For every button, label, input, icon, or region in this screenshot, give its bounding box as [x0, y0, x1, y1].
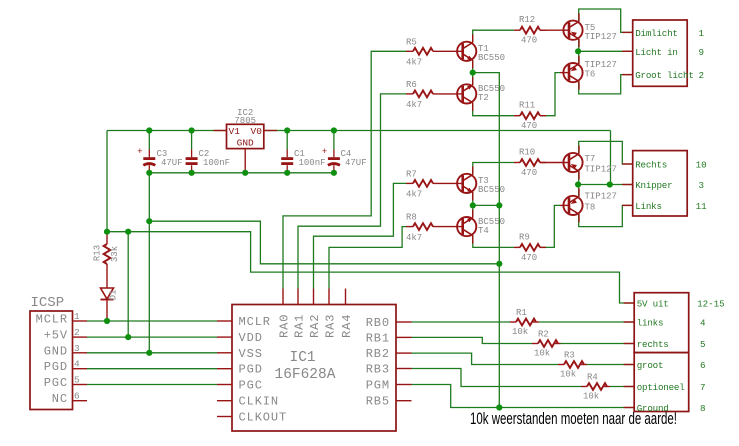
svg-text:+5V: +5V — [44, 329, 68, 343]
svg-text:PGD: PGD — [239, 363, 263, 377]
svg-text:6: 6 — [74, 391, 80, 402]
svg-text:VSS: VSS — [239, 347, 263, 361]
svg-text:RA4: RA4 — [340, 314, 354, 338]
junction node 12 — [146, 218, 152, 224]
svg-text:1: 1 — [699, 28, 705, 39]
wire T4 emitter to node B — [472, 205, 474, 217]
svg-text:RB5: RB5 — [366, 395, 390, 409]
junction node 7 — [242, 170, 248, 176]
junction node 3 — [284, 127, 290, 133]
svg-text:R10: R10 — [519, 148, 535, 158]
transistor T2 BC550 — [457, 84, 476, 103]
svg-text:R1: R1 — [516, 308, 527, 318]
svg-text:7: 7 — [700, 382, 706, 393]
svg-text:RA1: RA1 — [293, 314, 307, 338]
IC1 right pin PGM — [396, 384, 412, 386]
svg-text:+: + — [322, 147, 327, 157]
svg-text:D1: D1 — [109, 290, 119, 301]
junction node 9 — [331, 170, 337, 176]
svg-text:BC550: BC550 — [478, 53, 505, 63]
junction node 11 — [125, 229, 131, 235]
wire GND column to ICSP GND row — [148, 173, 150, 353]
wire R12 to T5 base — [540, 29, 569, 31]
svg-text:33k: 33k — [110, 246, 120, 262]
svg-text:TIP127: TIP127 — [585, 192, 617, 202]
wire T5 collector to Dimlicht — [579, 9, 633, 32]
ICSP pin 1 MCLR — [73, 320, 88, 322]
connector pin links 4 — [624, 321, 635, 323]
wire T6 emitter to Licht in node — [578, 51, 580, 64]
wire RA3 to R8 — [329, 227, 406, 289]
svg-text:10k: 10k — [534, 348, 550, 358]
wire T1 emitter to node A — [472, 60, 474, 72]
wire T3 collector to R10 row — [473, 163, 514, 175]
wire R11 T6 base stub — [560, 72, 569, 74]
IC1 right pin RB5 — [396, 400, 412, 402]
wire +5V branch down to ICSP +5V row — [127, 232, 129, 337]
svg-text:4k7: 4k7 — [406, 58, 422, 68]
junction node 4 — [331, 127, 337, 133]
connector indicators (Rechts/Knipper/Links) — [633, 151, 688, 216]
svg-text:CLKOUT: CLKOUT — [239, 411, 288, 425]
svg-text:IC1: IC1 — [290, 350, 316, 366]
svg-text:470: 470 — [521, 36, 537, 46]
junction node 8 — [284, 170, 290, 176]
IC1 left pin PGD — [217, 368, 232, 370]
connector outputs 2 (groot/optioneel/Ground) — [634, 353, 689, 412]
wire PGD row ICSP to IC1 — [87, 368, 217, 370]
connector pin Ground 8 — [624, 407, 635, 409]
wire left column from rail down to R13 node — [106, 131, 108, 232]
junction node 16 — [470, 70, 476, 76]
IC1 left pin MCLR — [217, 320, 232, 322]
transistor T3 BC550 — [457, 174, 476, 193]
wire T4 collector to R9 row — [473, 235, 514, 248]
resistor R6 4k7 — [406, 93, 413, 95]
wire ground column — [498, 205, 500, 407]
junction node 5 — [146, 170, 152, 176]
svg-text:T2: T2 — [478, 93, 489, 103]
svg-text:V0: V0 — [251, 126, 263, 137]
svg-text:4k7: 4k7 — [406, 233, 422, 243]
resistor R7 4k7 — [406, 182, 413, 184]
svg-text:R13: R13 — [93, 245, 103, 261]
transistor T7 TIP127 — [563, 153, 582, 172]
svg-text:R9: R9 — [519, 232, 530, 242]
wire R1 right to links pin — [539, 321, 634, 323]
junction node 15 — [146, 350, 152, 356]
IC1 top pin RA2 — [313, 289, 315, 305]
svg-text:R6: R6 — [406, 80, 417, 90]
wire GND staircase to transistor emitters — [149, 221, 499, 264]
svg-text:ICSP: ICSP — [31, 295, 65, 311]
svg-text:TIP127: TIP127 — [585, 32, 617, 42]
svg-text:T7: T7 — [585, 154, 596, 164]
microcontroller IC1 16F628A box — [232, 305, 396, 432]
svg-text:47UF: 47UF — [161, 158, 183, 168]
resistor R3 10k — [558, 364, 564, 366]
svg-text:5: 5 — [74, 375, 80, 386]
svg-text:PGC: PGC — [44, 376, 68, 390]
svg-text:5V uit: 5V uit — [637, 299, 669, 310]
svg-text:R7: R7 — [406, 169, 417, 179]
svg-text:R5: R5 — [406, 37, 417, 47]
IC1 top pin RA4 — [345, 289, 347, 305]
connector pin Groot licht 2 — [622, 74, 633, 76]
svg-text:10k: 10k — [583, 391, 599, 401]
wire R2 right to rechts pin — [561, 343, 635, 345]
connector outputs 1 (5V uit/links/rechts) — [634, 293, 689, 353]
wire RA2 to R7 — [314, 183, 407, 288]
svg-text:R3: R3 — [564, 351, 575, 361]
junction node 23 — [496, 404, 502, 410]
svg-text:4k7: 4k7 — [406, 100, 422, 110]
junction node 10 — [104, 229, 110, 235]
junction node 20 — [575, 48, 581, 54]
wire T3 emitter to node B — [472, 192, 474, 205]
wire R11 to T6 base — [540, 73, 560, 116]
svg-text:47UF: 47UF — [345, 158, 367, 168]
wire +5V row ICSP to IC1 — [87, 336, 217, 338]
wire +V top rail — [107, 130, 611, 132]
wire PGC row ICSP to IC1 — [87, 384, 217, 386]
IC1 left pin CLKOUT — [217, 416, 232, 418]
junction node 2 — [189, 127, 195, 133]
svg-text:Rechts: Rechts — [635, 160, 667, 171]
IC2 pin V0 stub — [264, 130, 277, 132]
IC1 right pin RB3 — [396, 368, 412, 370]
connector pin Licht in 9 — [622, 50, 633, 52]
junction node 18 — [496, 202, 502, 208]
svg-text:TIP127: TIP127 — [585, 165, 617, 175]
junction node 21 — [575, 181, 581, 187]
svg-text:10: 10 — [696, 160, 707, 171]
svg-text:BC550: BC550 — [478, 185, 505, 195]
svg-text:RB0: RB0 — [366, 316, 390, 330]
wire capacitor ground rail — [149, 172, 334, 174]
svg-text:T4: T4 — [478, 226, 489, 236]
IC1 left pin VSS — [217, 352, 232, 354]
svg-text:RB2: RB2 — [366, 347, 390, 361]
svg-text:RA2: RA2 — [308, 314, 322, 338]
svg-text:GND: GND — [237, 138, 254, 149]
wire T8 collector to Links — [579, 205, 633, 226]
connector pin Rechts 10 — [622, 163, 633, 165]
svg-text:5: 5 — [700, 339, 706, 350]
transistor T5 TIP127 — [563, 21, 582, 40]
svg-text:R12: R12 — [519, 15, 535, 25]
wire T7 emitter to Knipper node — [578, 171, 580, 184]
junction node 1 — [146, 127, 152, 133]
svg-text:470: 470 — [521, 121, 537, 131]
wire node A to ground column — [473, 73, 500, 206]
svg-text:R4: R4 — [587, 373, 598, 383]
svg-text:3: 3 — [699, 180, 705, 191]
ICSP pin 6 NC — [73, 400, 88, 402]
svg-text:1: 1 — [74, 311, 80, 322]
wire T5 emitter to Licht in node — [578, 39, 580, 51]
wire T1 collector to R12 row — [473, 30, 514, 42]
IC1 top pin RA3 — [328, 289, 330, 305]
capacitor C4 47uF — [333, 131, 335, 150]
wire R4 right to optioneel pin — [610, 386, 634, 388]
ICSP connector box — [30, 311, 73, 410]
svg-text:Licht in: Licht in — [635, 47, 678, 58]
svg-text:PGM: PGM — [366, 379, 390, 393]
IC1 right pin RB0 — [396, 321, 412, 323]
capacitor C2 100nF — [191, 131, 193, 150]
connector pin rechts 5 — [624, 343, 635, 345]
IC1 left pin VDD — [217, 336, 232, 338]
svg-text:links: links — [637, 318, 664, 329]
svg-text:T8: T8 — [585, 203, 596, 213]
svg-text:MCLR: MCLR — [239, 315, 271, 329]
svg-text:2: 2 — [74, 327, 80, 338]
svg-text:10k: 10k — [560, 369, 576, 379]
resistor R8 4k7 — [406, 226, 413, 228]
svg-text:V1: V1 — [229, 126, 241, 137]
resistor R2 10k — [532, 343, 538, 345]
IC1 right pin RB1 — [396, 336, 412, 338]
svg-text:optioneel: optioneel — [637, 382, 685, 393]
svg-text:groot: groot — [637, 360, 664, 371]
svg-text:100nF: 100nF — [203, 158, 230, 168]
svg-text:VDD: VDD — [239, 331, 263, 345]
IC1 top pin RA0 — [282, 289, 284, 305]
wire MCLR row ICSP to IC1 — [87, 320, 217, 322]
svg-text:12-15: 12-15 — [697, 299, 725, 310]
wire RA1 to R6 — [298, 94, 406, 289]
wire R9 to T8 base — [540, 205, 560, 247]
wire RB2 to R3 to groot — [412, 353, 559, 364]
svg-text:PGD: PGD — [44, 360, 68, 374]
IC2 pin V1 stub — [214, 130, 227, 132]
resistor R10 470 — [514, 162, 520, 164]
svg-text:3: 3 — [74, 343, 80, 354]
wire PGM to Ground row — [412, 385, 635, 408]
svg-text:10k weerstanden moeten naar de: 10k weerstanden moeten naar de aarde! — [470, 410, 677, 428]
resistor R12 470 — [514, 29, 520, 31]
junction node 13 — [104, 318, 110, 324]
wire T6 collector to Groot licht — [579, 75, 633, 94]
wire GND row ICSP to IC1 — [87, 352, 217, 354]
wire T2 collector to R11 row — [473, 103, 514, 116]
svg-text:Dimlicht: Dimlicht — [635, 28, 678, 39]
svg-text:RA3: RA3 — [324, 314, 338, 338]
svg-text:Knipper: Knipper — [635, 180, 672, 191]
svg-text:CLKIN: CLKIN — [239, 395, 280, 409]
wire +5V line from R13 node to 5V uit — [107, 232, 634, 303]
junction node 22 — [607, 181, 613, 187]
wire RB1 to R2 to rechts — [412, 337, 533, 343]
connector pin optioneel 7 — [624, 386, 635, 388]
svg-text:Groot licht: Groot licht — [635, 70, 693, 81]
wire T7 collector to Rechts — [579, 141, 633, 164]
svg-text:R11: R11 — [519, 101, 535, 111]
transistor T8 TIP127 — [563, 196, 582, 215]
svg-text:11: 11 — [696, 201, 708, 212]
junction node 19 — [496, 261, 502, 267]
svg-text:4: 4 — [700, 318, 706, 329]
svg-text:100nF: 100nF — [299, 158, 326, 168]
wire Knipper row — [578, 184, 633, 186]
svg-text:4: 4 — [74, 359, 80, 370]
svg-text:+: + — [137, 147, 142, 157]
diode D1 — [101, 288, 114, 299]
svg-text:T6: T6 — [585, 70, 596, 80]
svg-text:TIP127: TIP127 — [585, 60, 617, 70]
svg-text:R8: R8 — [406, 213, 417, 223]
resistor R11 470 — [514, 115, 520, 117]
wire RB0 to R1 to links — [412, 321, 511, 323]
svg-text:470: 470 — [521, 253, 537, 263]
svg-text:R2: R2 — [538, 330, 549, 340]
voltage regulator IC2 7805 box — [227, 124, 264, 148]
svg-text:GND: GND — [44, 344, 68, 358]
IC1 right pin RB2 — [396, 352, 412, 354]
resistor R1 10k — [510, 321, 516, 323]
svg-text:RA0: RA0 — [278, 314, 292, 338]
IC1 left pin CLKIN — [217, 400, 232, 402]
svg-text:16F628A: 16F628A — [275, 367, 336, 383]
svg-text:470: 470 — [521, 168, 537, 178]
svg-text:RB3: RB3 — [366, 363, 390, 377]
svg-text:10k: 10k — [512, 327, 528, 337]
IC1 left pin PGC — [217, 384, 232, 386]
connector pin Links 11 — [622, 204, 633, 206]
capacitor C3 47uF — [148, 131, 150, 150]
IC1 top pin RA1 — [297, 289, 299, 305]
svg-text:rechts: rechts — [637, 339, 669, 350]
connector pin Knipper 3 — [622, 184, 633, 186]
capacitor C1 100nF — [286, 131, 288, 150]
svg-text:MCLR: MCLR — [36, 313, 68, 327]
IC2 GND pin stub — [244, 149, 246, 173]
svg-text:6: 6 — [700, 360, 706, 371]
resistor R13 33k — [106, 232, 108, 244]
ICSP pin 5 PGC — [73, 384, 88, 386]
svg-text:9: 9 — [699, 47, 705, 58]
transistor T1 BC550 — [457, 42, 476, 61]
wire rail drop to Knipper node — [610, 131, 612, 185]
wire RB3 to R4 to optioneel — [412, 369, 582, 387]
resistor R5 4k7 — [406, 50, 413, 52]
connector pin groot 6 — [624, 364, 635, 366]
wire R10 to T7 base — [540, 162, 569, 164]
svg-text:NC: NC — [52, 392, 68, 406]
svg-text:RB1: RB1 — [366, 331, 390, 345]
svg-text:PGC: PGC — [239, 379, 263, 393]
wire R3 right to groot pin — [587, 364, 634, 366]
resistor R4 10k — [581, 386, 587, 388]
wire RA0 to R5 — [283, 51, 406, 288]
svg-text:4k7: 4k7 — [406, 190, 422, 200]
connector pin 5V uit 12-15 — [624, 302, 635, 304]
ICSP pin 4 PGD — [73, 368, 88, 370]
svg-text:7805: 7805 — [234, 116, 256, 126]
junction node 6 — [189, 170, 195, 176]
connector lights (Dimlicht/Licht in/Groot licht) — [633, 20, 688, 86]
transistor T4 BC550 — [457, 217, 476, 236]
svg-text:8: 8 — [700, 403, 706, 414]
wire node B to ground column — [473, 204, 500, 206]
wire T2 emitter to node A — [472, 73, 474, 86]
junction node 14 — [125, 334, 131, 340]
connector pin Dimlicht 1 — [622, 31, 633, 33]
transistor T6 TIP127 — [563, 63, 582, 82]
resistor R9 470 — [514, 246, 520, 248]
wire T8 emitter to Knipper node — [578, 185, 580, 197]
ICSP pin 2 +5V — [73, 336, 88, 338]
ICSP pin 3 GND — [73, 352, 88, 354]
wire Licht in row — [578, 50, 633, 52]
junction node 17 — [470, 202, 476, 208]
svg-text:Links: Links — [635, 201, 662, 212]
svg-text:2: 2 — [699, 70, 705, 81]
wire R9 T8 base stub — [560, 204, 569, 206]
